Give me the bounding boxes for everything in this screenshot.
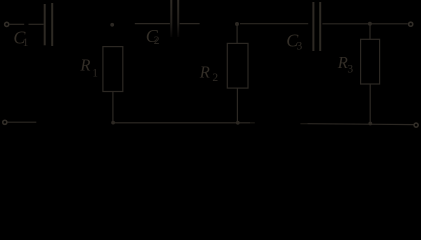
svg-text:1: 1 <box>92 67 98 79</box>
wire R2 bottom lead <box>236 88 238 123</box>
capacitor C3 <box>313 2 320 51</box>
wire top rail to C2 <box>135 23 170 25</box>
wire top-left segment 1 <box>10 23 25 25</box>
resistor R2 <box>227 43 248 88</box>
svg-text:R: R <box>337 53 348 72</box>
label C2 <box>146 26 160 47</box>
label R1 <box>79 56 98 80</box>
label C1 <box>13 28 28 49</box>
label R2 <box>199 62 219 84</box>
terminal top-right <box>409 22 413 26</box>
svg-text:2: 2 <box>154 35 160 47</box>
wire bottom-left stub <box>8 121 37 123</box>
node R1 bottom junction dot <box>111 121 115 125</box>
wire C2 right stub <box>180 23 200 25</box>
wire C3 to top-right terminal <box>322 23 407 25</box>
svg-text:1: 1 <box>23 37 29 49</box>
wire R3 top lead <box>369 25 371 39</box>
wire bottom rail R1 to past R2 <box>113 122 250 123</box>
node R1 top junction dot <box>110 23 114 27</box>
svg-text:2: 2 <box>212 72 218 84</box>
node R3 bottom junction dot <box>368 122 372 126</box>
wire bottom rail right segment <box>300 123 307 124</box>
terminal top-left <box>5 22 9 26</box>
svg-text:3: 3 <box>347 64 353 76</box>
wire R1 bottom lead <box>112 92 114 123</box>
svg-text:3: 3 <box>297 41 303 53</box>
resistor R1 <box>103 47 123 92</box>
node R2 bottom junction dot <box>236 121 240 125</box>
label R3 <box>337 53 354 75</box>
node R3 top junction dot <box>368 22 372 26</box>
capacitor C1 <box>45 3 53 46</box>
svg-text:R: R <box>79 56 90 75</box>
label C3 <box>286 31 302 53</box>
node R2 top junction dot <box>235 22 239 26</box>
capacitor C2 <box>170 0 179 37</box>
terminal bottom-left <box>3 120 7 124</box>
wire R2 dot to C3 <box>240 23 308 25</box>
wire top-left segment 2 <box>29 23 44 25</box>
svg-text:R: R <box>199 62 210 81</box>
resistor R3 <box>361 39 380 84</box>
wire R2 top lead <box>236 25 238 43</box>
terminal bottom-right <box>414 123 418 127</box>
wire R3 bottom lead <box>369 84 371 124</box>
